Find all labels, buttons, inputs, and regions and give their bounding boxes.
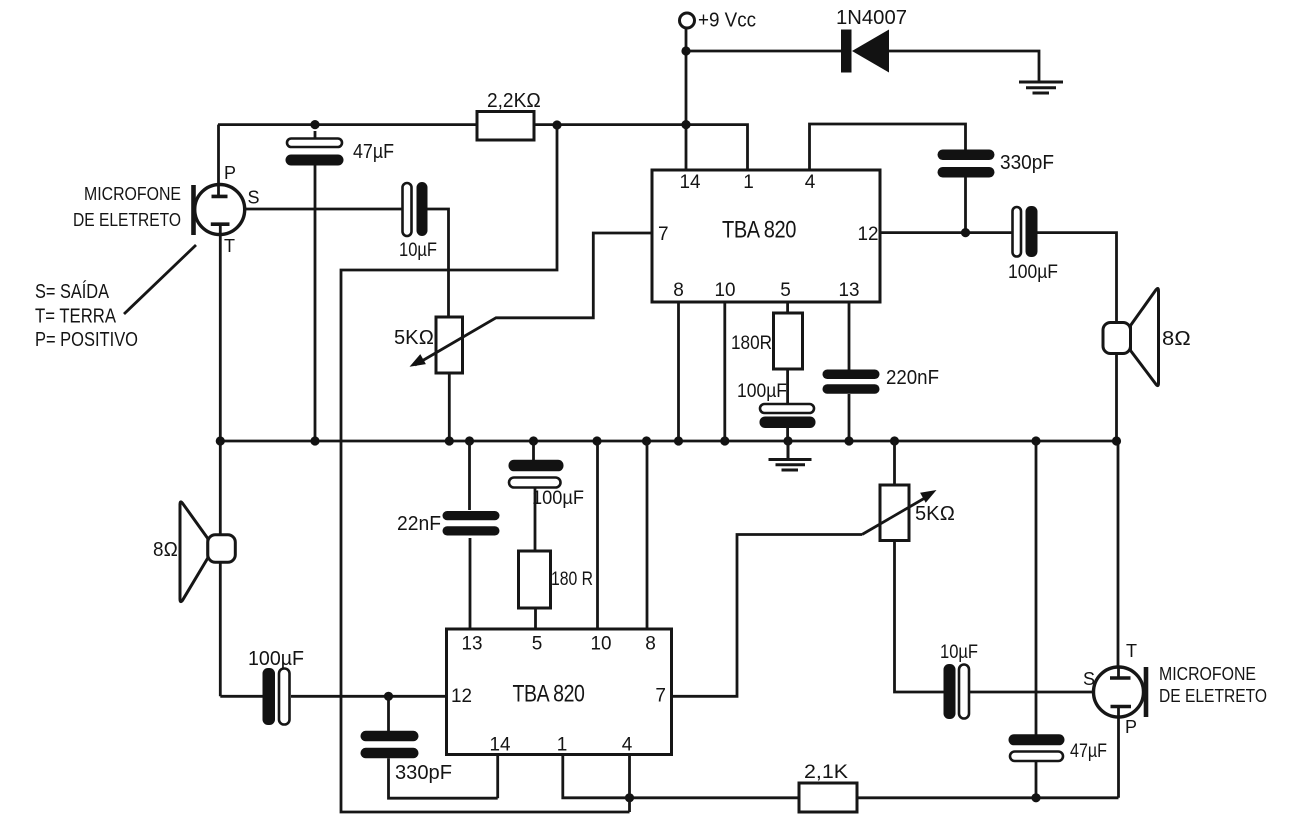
wire: C11 to R3 bbox=[534, 488, 537, 551]
wire: tap down to C13 bbox=[387, 696, 390, 731]
svg-text:P: P bbox=[1125, 717, 1137, 737]
svg-text:S: S bbox=[1083, 669, 1095, 689]
svg-text:1: 1 bbox=[557, 735, 568, 756]
ground rail (long horizontal) bbox=[220, 440, 1116, 443]
node: rail 220nF bbox=[844, 436, 853, 445]
node: rail 22nF bbox=[465, 436, 474, 445]
svg-text:8: 8 bbox=[673, 280, 684, 301]
svg-text:+9 Vcc: +9 Vcc bbox=[698, 10, 756, 32]
svg-text:47µF: 47µF bbox=[1070, 741, 1107, 762]
svg-text:MICROFONE: MICROFONE bbox=[84, 184, 181, 204]
svg-text:5KΩ: 5KΩ bbox=[394, 327, 434, 349]
node: feedback tap after R1 bbox=[552, 120, 561, 129]
wire: pin 5 to R2 bbox=[786, 302, 789, 313]
svg-text:13: 13 bbox=[839, 280, 860, 301]
capacitor C2 10uF bbox=[399, 182, 437, 261]
node: bottom rail pins 1/4 bbox=[625, 793, 634, 802]
svg-text:7: 7 bbox=[658, 224, 669, 245]
node: 330pF tap on pin 12 line bbox=[384, 692, 393, 701]
svg-text:100µF: 100µF bbox=[737, 381, 787, 402]
svg-text:8Ω: 8Ω bbox=[1162, 328, 1191, 350]
wire: R2 to C5 bbox=[786, 369, 789, 404]
node: rail C9 47uF right bbox=[1031, 436, 1040, 445]
diode D1 1N4007 bbox=[836, 7, 907, 73]
legend S/T/P bbox=[35, 280, 138, 351]
wire: C8 to mic S (right) bbox=[969, 691, 1093, 694]
bottom rail: lower amp pins 1/4 to mic P bbox=[630, 796, 1119, 799]
wire: R1 to pin 1 drop bbox=[534, 125, 748, 170]
resistor R2 180R bbox=[731, 313, 803, 369]
capacitor C9 47uF (right) bbox=[1009, 734, 1108, 762]
wire: C12 to speaker SP2 bbox=[220, 695, 262, 698]
svg-text:1N4007: 1N4007 bbox=[836, 7, 907, 29]
node: +9V on rail bbox=[681, 120, 690, 129]
wire: pin 4 to C3 bbox=[810, 124, 966, 170]
wire: C2 to P1 top bbox=[428, 209, 449, 317]
svg-text:330pF: 330pF bbox=[395, 762, 452, 784]
node: bottom rail C9 bbox=[1031, 793, 1040, 802]
node: rail mic T left bbox=[216, 436, 225, 445]
svg-text:12: 12 bbox=[451, 686, 472, 707]
wire: rail to C11 bbox=[532, 441, 535, 460]
loudspeaker SP2 8 ohm (left) bbox=[153, 441, 235, 696]
wire: rail to C9 47uF right bbox=[1035, 441, 1038, 735]
label: microfone de eletreto (left) bbox=[73, 184, 181, 230]
wire: lower pin 12 output bbox=[291, 695, 447, 698]
capacitor C6 220nF bbox=[823, 367, 940, 394]
svg-text:TBA 820: TBA 820 bbox=[513, 681, 585, 708]
node: rail 47uF left bbox=[310, 436, 319, 445]
svg-text:1: 1 bbox=[743, 172, 754, 193]
ground (top right) bbox=[1019, 82, 1063, 93]
node: rail ground symbol bbox=[783, 436, 792, 445]
wire: C5 to rail bbox=[786, 428, 789, 441]
capacitor C12 100uF (lower left) bbox=[248, 648, 304, 725]
resistor R4 2,1K bbox=[799, 762, 857, 812]
supply terminal +9Vcc bbox=[680, 10, 757, 32]
node: C3 / pin 12 junction bbox=[961, 228, 970, 237]
svg-text:14: 14 bbox=[490, 735, 511, 756]
IC U1 TBA 820 (upper) bbox=[652, 170, 880, 302]
svg-text:2,2KΩ: 2,2KΩ bbox=[487, 90, 541, 112]
node: rail lower pin 8 bbox=[642, 436, 651, 445]
wire: junction to diode anode bbox=[686, 50, 842, 53]
node: rail 100uF lower mid bbox=[529, 436, 538, 445]
loudspeaker SP1 8 ohm (right) bbox=[1103, 288, 1191, 385]
wire: C9 to bottom rail bbox=[1035, 761, 1038, 798]
capacitor C11 100uF (lower mid) bbox=[509, 460, 585, 509]
pointer line to mic terminals bbox=[124, 245, 196, 314]
wire: rail to C10 22nF bbox=[468, 441, 471, 510]
svg-text:8Ω: 8Ω bbox=[153, 539, 178, 561]
node: 47uF tap on mic rail bbox=[310, 120, 319, 129]
ground (center) bbox=[769, 441, 812, 470]
wire: pin 12 output bbox=[880, 231, 1013, 234]
svg-text:10µF: 10µF bbox=[940, 642, 978, 663]
wire: lower pin 1 to node bbox=[563, 755, 630, 798]
resistor R3 180R (lower) bbox=[519, 551, 594, 608]
wire: C13 bottom to lower pin 14 bbox=[389, 758, 498, 798]
capacitor C13 330pF (lower) bbox=[361, 731, 453, 784]
node: +9V / diode junction bbox=[681, 46, 690, 55]
wire: C3 to pin 12 line bbox=[964, 178, 967, 233]
svg-text:5: 5 bbox=[532, 634, 543, 655]
svg-text:TBA 820: TBA 820 bbox=[722, 217, 796, 244]
svg-text:T: T bbox=[1126, 641, 1137, 661]
wire: mic S to C2 bbox=[245, 208, 403, 211]
wire: upper pin 10 to rail bbox=[723, 302, 726, 441]
wire: long feedback route to lower amp pins 1/4 bbox=[341, 125, 630, 812]
capacitor C5 100uF (upper mid) bbox=[737, 381, 816, 428]
node: rail lower pin 10 bbox=[592, 436, 601, 445]
svg-text:47µF: 47µF bbox=[353, 141, 394, 163]
capacitor C1 47uF (upper left) bbox=[286, 139, 395, 166]
svg-text:2,1K: 2,1K bbox=[804, 762, 848, 783]
wire: 47uF to ground rail bbox=[314, 131, 317, 441]
svg-text:P= POSITIVO: P= POSITIVO bbox=[35, 329, 138, 351]
wire: P2 wiper to lower pin 7 bbox=[672, 535, 863, 697]
svg-text:7: 7 bbox=[655, 686, 666, 707]
svg-text:100µF: 100µF bbox=[1008, 262, 1058, 283]
wire: pin 13 to C6 bbox=[848, 302, 851, 370]
wire: lower pin 14 stub bbox=[496, 755, 499, 799]
node: rail P1 bottom bbox=[445, 436, 454, 445]
svg-text:S= SAÍDA: S= SAÍDA bbox=[35, 280, 110, 303]
wire: +9V terminal down to pin 14 bbox=[685, 29, 688, 171]
svg-text:13: 13 bbox=[462, 634, 483, 655]
svg-text:5KΩ: 5KΩ bbox=[915, 503, 955, 525]
svg-text:100µF: 100µF bbox=[248, 648, 304, 670]
electret microphone MIC2 (right) bbox=[1083, 641, 1146, 798]
capacitor C4 100uF (right) bbox=[1008, 206, 1058, 283]
svg-text:220nF: 220nF bbox=[886, 367, 939, 389]
svg-text:4: 4 bbox=[805, 172, 816, 193]
resistor R1 2,2K bbox=[477, 90, 541, 140]
IC U2 TBA 820 (lower) bbox=[447, 629, 672, 756]
svg-text:S: S bbox=[248, 188, 260, 208]
svg-text:14: 14 bbox=[680, 172, 701, 193]
svg-text:DE ELETRETO: DE ELETRETO bbox=[1159, 686, 1267, 706]
wire: rail to lower pin 10 bbox=[596, 441, 599, 629]
svg-text:100µF: 100µF bbox=[532, 488, 584, 509]
wire: C10 to lower pin 13 bbox=[469, 538, 472, 629]
node: rail upper pin 10 bbox=[720, 436, 729, 445]
svg-text:T= TERRA: T= TERRA bbox=[35, 306, 117, 328]
svg-text:4: 4 bbox=[622, 735, 633, 756]
node: rail P2 top bbox=[890, 436, 899, 445]
svg-text:5: 5 bbox=[780, 280, 791, 301]
capacitor C8 10uF (right) bbox=[940, 642, 978, 719]
svg-text:MICROFONE: MICROFONE bbox=[1159, 664, 1256, 684]
svg-text:T: T bbox=[224, 236, 235, 256]
svg-text:22nF: 22nF bbox=[397, 513, 441, 535]
node: rail upper pin 8 bbox=[674, 436, 683, 445]
potentiometer P1 5K (upper) bbox=[394, 317, 463, 373]
wire: pin 7 to P1 wiper arrow bbox=[410, 233, 653, 367]
wire: R3 to lower pin 5 bbox=[534, 608, 537, 629]
wire: C4 to speaker SP1 bbox=[1038, 233, 1117, 323]
capacitor C3 330pF bbox=[938, 150, 1055, 178]
svg-text:10: 10 bbox=[591, 634, 612, 655]
svg-text:DE ELETRETO: DE ELETRETO bbox=[73, 210, 181, 230]
wire: lower pin 4 through node bbox=[628, 755, 631, 813]
svg-text:330pF: 330pF bbox=[1000, 152, 1054, 174]
wire: upper pin 8 to rail bbox=[677, 302, 680, 441]
wire: diode cathode to ground bbox=[889, 51, 1039, 81]
svg-text:P: P bbox=[224, 163, 236, 183]
capacitor C10 22nF bbox=[397, 511, 500, 536]
svg-text:8: 8 bbox=[645, 634, 656, 655]
electret microphone MIC1 (left) bbox=[194, 125, 260, 441]
label: microfone de eletreto (right) bbox=[1159, 664, 1267, 706]
svg-text:12: 12 bbox=[858, 224, 879, 245]
svg-text:10: 10 bbox=[715, 280, 736, 301]
wire: C6 to rail bbox=[848, 394, 851, 441]
wire: SP1 down through rail to mic T (right) bbox=[1117, 354, 1119, 669]
svg-text:10µF: 10µF bbox=[399, 240, 437, 261]
wire: mic P rail to R1 bbox=[218, 123, 477, 126]
svg-text:180R: 180R bbox=[731, 333, 772, 354]
node: rail speaker / mic T right bbox=[1112, 436, 1121, 445]
potentiometer P2 5K (right) bbox=[862, 441, 955, 541]
wire: P1 bottom to ground rail bbox=[448, 373, 451, 441]
wire: rail to lower pin 8 bbox=[646, 441, 649, 629]
wire: P2 bottom to C8 bbox=[895, 541, 944, 693]
svg-text:180 R: 180 R bbox=[551, 569, 593, 590]
